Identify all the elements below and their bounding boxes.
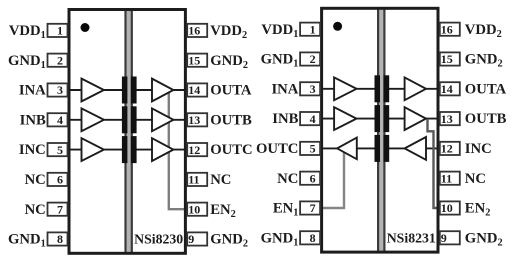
pin 10 label EN2: [465, 201, 491, 219]
svg-text:NC: NC: [210, 172, 231, 188]
buffer B (left half): [334, 107, 356, 130]
pin 8 label GND1: [8, 232, 46, 250]
svg-text:NC: NC: [465, 171, 486, 187]
IC package NSi8231: [322, 8, 438, 252]
pin 9 label GND2: [210, 232, 248, 250]
pin 7 label EN1: [273, 201, 299, 219]
svg-text:5: 5: [310, 142, 316, 156]
pin 15 label GND2: [210, 53, 248, 71]
pin 7 box: [48, 202, 68, 216]
pin 7 box: [300, 201, 320, 215]
pin 4 box: [300, 112, 320, 126]
pin 9 box: [187, 232, 207, 246]
pin 5 box: [300, 142, 320, 156]
svg-text:6: 6: [57, 173, 63, 187]
svg-text:10: 10: [188, 202, 200, 216]
svg-text:10: 10: [441, 201, 453, 215]
svg-text:15: 15: [188, 53, 200, 67]
wire channel B: [68, 119, 190, 121]
svg-text:13: 13: [188, 113, 200, 127]
pin 3 label INA: [19, 83, 46, 99]
buffer C (left half): [82, 138, 104, 161]
buffer C (left half): [337, 138, 357, 160]
pin 13 label OUTB: [210, 112, 252, 128]
svg-text:INA: INA: [271, 81, 298, 97]
pin 16 label VDD2: [465, 22, 502, 40]
svg-text:INC: INC: [19, 142, 46, 158]
svg-text:14: 14: [188, 83, 200, 97]
wire channel B: [320, 118, 442, 120]
wire EN2 net (pin 10 enable to OUTA/OUTB buffers): [428, 119, 442, 208]
pin 3 box: [48, 83, 68, 97]
buffer B (right half): [405, 107, 426, 130]
isolation barrier: [378, 8, 384, 252]
wire EN2 net (pin 10 enable to output buffers): [169, 90, 189, 209]
part name NSi8230: [134, 232, 183, 247]
wire channel A: [320, 88, 442, 90]
svg-text:OUTA: OUTA: [210, 83, 252, 99]
pin 14 label OUTA: [210, 83, 252, 99]
pin 10 label EN2: [210, 202, 236, 220]
svg-text:GND1: GND1: [8, 53, 46, 71]
svg-text:OUTA: OUTA: [465, 81, 507, 97]
svg-text:OUTB: OUTB: [465, 111, 507, 127]
pin 10 box: [187, 202, 207, 216]
svg-text:8: 8: [310, 231, 316, 245]
svg-text:13: 13: [441, 112, 453, 126]
svg-text:OUTC: OUTC: [256, 141, 298, 157]
svg-text:7: 7: [310, 201, 316, 215]
pin 1 box: [48, 24, 68, 38]
svg-text:VDD2: VDD2: [210, 23, 247, 41]
pin 1 label VDD1: [261, 22, 298, 40]
pin 5 label OUTC: [256, 141, 298, 157]
pin 2 box: [300, 52, 320, 66]
svg-text:4: 4: [57, 113, 63, 127]
buffer B (right half): [152, 108, 173, 131]
pin 12 label OUTC: [210, 142, 252, 158]
pin 9 label GND2: [465, 230, 503, 248]
svg-text:NC: NC: [277, 171, 298, 187]
svg-text:GND1: GND1: [8, 232, 46, 250]
pin 14 box: [440, 82, 460, 96]
pin 11 box: [187, 173, 207, 187]
svg-text:16: 16: [188, 24, 200, 38]
svg-text:GND2: GND2: [210, 53, 248, 71]
buffer C (right half): [405, 137, 426, 160]
pin 12 label INC: [465, 141, 492, 157]
svg-text:4: 4: [310, 112, 316, 126]
svg-text:NC: NC: [25, 172, 46, 188]
pin 6 label NC: [25, 172, 46, 188]
isolation barrier: [126, 10, 132, 254]
svg-text:16: 16: [441, 22, 453, 36]
pin 5 label INC: [19, 142, 46, 158]
pin 16 box: [440, 22, 460, 36]
pin-1 indicator dot: [81, 23, 90, 32]
isolation capacitor plates, channel C: [375, 135, 390, 162]
svg-text:OUTC: OUTC: [210, 142, 252, 158]
svg-text:9: 9: [188, 232, 194, 246]
svg-text:NC: NC: [25, 202, 46, 218]
pin 12 box: [440, 142, 460, 156]
isolation capacitor plates, channel C: [122, 136, 137, 163]
svg-text:2: 2: [310, 52, 316, 66]
pin 4 label INB: [20, 112, 46, 128]
pin 5 box: [48, 143, 68, 157]
svg-text:INC: INC: [465, 141, 492, 157]
svg-text:3: 3: [57, 83, 63, 97]
pin 4 box: [48, 113, 68, 127]
svg-text:14: 14: [441, 82, 453, 96]
svg-text:6: 6: [310, 171, 316, 185]
svg-text:8: 8: [57, 232, 63, 246]
svg-text:VDD2: VDD2: [465, 22, 502, 40]
pin 3 label INA: [271, 81, 298, 97]
buffer B (left half): [82, 108, 104, 131]
svg-text:11: 11: [188, 173, 199, 187]
svg-text:GND2: GND2: [465, 230, 503, 248]
pin 15 label GND2: [465, 52, 503, 70]
svg-text:NSi8230: NSi8230: [134, 232, 183, 247]
svg-text:15: 15: [441, 52, 453, 66]
pin 11 label NC: [210, 172, 231, 188]
svg-text:NSi8231: NSi8231: [387, 230, 436, 245]
svg-text:1: 1: [57, 24, 63, 38]
pin 14 label OUTA: [465, 81, 507, 97]
svg-text:INA: INA: [19, 83, 46, 99]
svg-text:GND1: GND1: [261, 52, 299, 70]
pin 15 box: [187, 53, 207, 67]
buffer A (right half): [405, 77, 426, 100]
pin 11 box: [440, 171, 460, 185]
svg-text:12: 12: [188, 143, 200, 157]
pin 13 label OUTB: [465, 111, 507, 127]
svg-text:1: 1: [310, 22, 316, 36]
svg-text:GND2: GND2: [210, 232, 248, 250]
pin 10 box: [440, 201, 460, 215]
pin 2 label GND1: [261, 52, 299, 70]
pin 2 label GND1: [8, 53, 46, 71]
svg-text:2: 2: [57, 53, 63, 67]
pin 2 box: [48, 53, 68, 67]
pin 1 box: [300, 22, 320, 36]
pin 14 box: [187, 83, 207, 97]
pin 15 box: [440, 52, 460, 66]
wire channel C: [68, 149, 190, 151]
isolation capacitor plates, channel B: [375, 105, 390, 132]
pin 6 box: [48, 173, 68, 187]
IC package NSi8230: [69, 10, 185, 254]
pin 6 box: [300, 171, 320, 185]
pin 11 label NC: [465, 171, 486, 187]
pin 9 box: [440, 231, 460, 245]
buffer A (left half): [82, 79, 104, 102]
svg-text:VDD1: VDD1: [9, 23, 46, 41]
svg-text:12: 12: [441, 142, 453, 156]
pin 8 box: [300, 231, 320, 245]
pin 6 label NC: [277, 171, 298, 187]
pin 8 label GND1: [261, 230, 299, 248]
svg-text:5: 5: [57, 143, 63, 157]
pin 12 box: [187, 143, 207, 157]
pin 16 box: [187, 24, 207, 38]
wire channel C: [320, 147, 442, 149]
svg-text:INB: INB: [272, 111, 298, 127]
pin 4 label INB: [272, 111, 298, 127]
pin 16 label VDD2: [210, 23, 247, 41]
pin 1 label VDD1: [9, 23, 46, 41]
isolation capacitor plates, channel B: [122, 106, 137, 133]
buffer A (right half): [152, 79, 173, 102]
pin 13 box: [440, 112, 460, 126]
part name NSi8231: [387, 230, 436, 245]
svg-text:OUTB: OUTB: [210, 112, 252, 128]
isolation capacitor plates, channel A: [122, 77, 137, 104]
buffer A (left half): [334, 77, 356, 100]
svg-text:3: 3: [310, 82, 316, 96]
svg-text:VDD1: VDD1: [261, 22, 298, 40]
svg-text:GND2: GND2: [465, 52, 503, 70]
svg-text:GND1: GND1: [261, 230, 299, 248]
wire EN1 net (pin 7 enable to OUTC buffer): [320, 150, 344, 208]
svg-text:7: 7: [57, 202, 63, 216]
pin 8 box: [48, 232, 68, 246]
isolation capacitor plates, channel A: [375, 75, 390, 102]
pin 7 label NC: [25, 202, 46, 218]
svg-text:11: 11: [441, 171, 452, 185]
wire channel A: [68, 89, 190, 91]
pin-1 indicator dot: [333, 22, 342, 31]
buffer C (right half): [152, 138, 173, 161]
pin 3 box: [300, 82, 320, 96]
svg-text:INB: INB: [20, 112, 46, 128]
svg-text:9: 9: [441, 231, 447, 245]
pin 13 box: [187, 113, 207, 127]
